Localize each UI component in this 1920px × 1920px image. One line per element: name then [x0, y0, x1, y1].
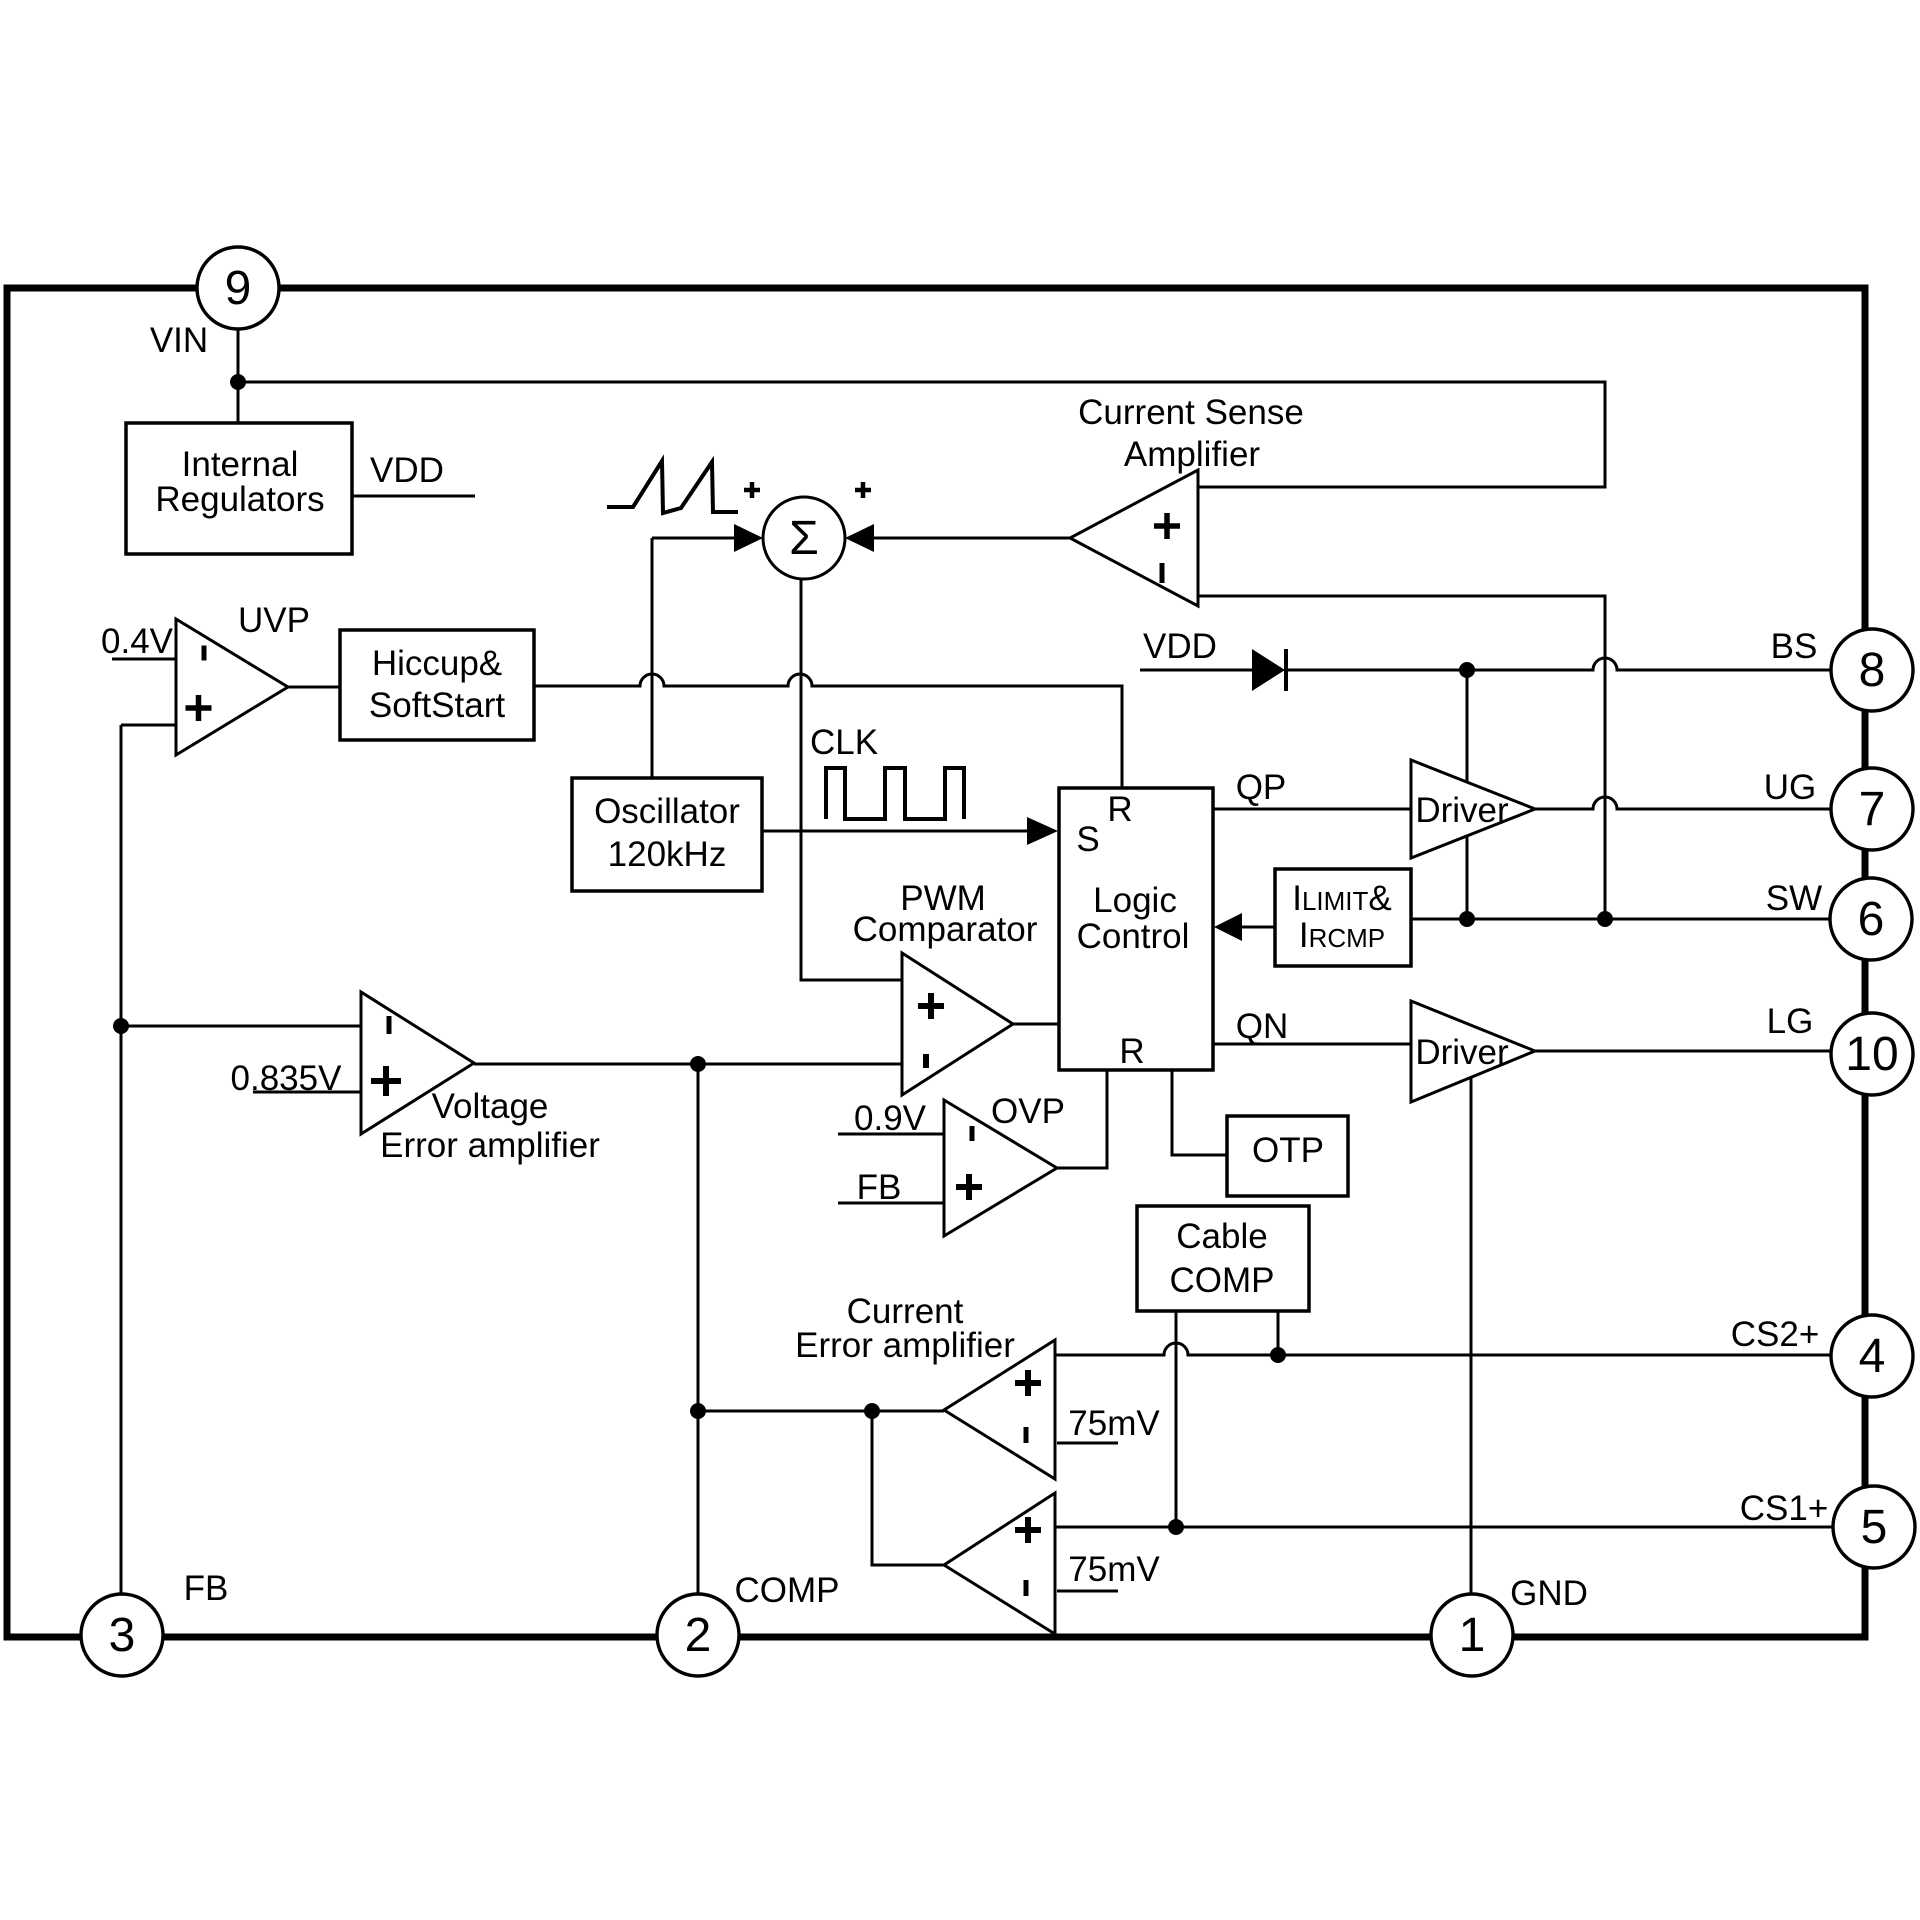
junction: split to lower amp — [864, 1403, 880, 1419]
svg-text:0.4V: 0.4V — [101, 622, 174, 661]
junction: SW / driver — [1459, 911, 1475, 927]
svg-text:UG: UG — [1764, 768, 1817, 807]
pin 7 (UG) — [1831, 768, 1913, 850]
junction: CS2+ / cable comp — [1270, 1347, 1286, 1363]
pin 10 (LG) — [1831, 1013, 1913, 1095]
amplifier: Current Error 2 (lower, points left) — [944, 1493, 1055, 1634]
svg-text:FB: FB — [184, 1569, 229, 1608]
svg-text:6: 6 — [1858, 893, 1885, 946]
block: Internal Regulators — [126, 423, 352, 554]
comparator: PWM — [902, 953, 1013, 1095]
wire: ILIMIT to logic control — [1242, 926, 1275, 929]
wire: OVP output up into logic control bottom — [1057, 1070, 1107, 1168]
net stub: 75mV (upper) — [1057, 1404, 1160, 1443]
svg-text:Amplifier: Amplifier — [1124, 435, 1260, 474]
wire: QN logic to lower driver — [1213, 1043, 1411, 1046]
svg-text:Comparator: Comparator — [853, 910, 1038, 949]
svg-text:Σ: Σ — [789, 512, 819, 565]
svg-text:8: 8 — [1859, 644, 1886, 697]
wire: FB vertical rail down to pin 3 — [120, 725, 123, 1596]
block: Oscillator 120kHz — [572, 778, 762, 891]
block: Hiccup & SoftStart — [340, 630, 534, 740]
svg-text:SW: SW — [1766, 879, 1822, 918]
wire: down and right to lower amp output — [872, 1411, 944, 1565]
block: OTP — [1227, 1116, 1348, 1196]
svg-text:R: R — [1107, 790, 1132, 829]
svg-text:10: 10 — [1845, 1028, 1898, 1081]
wire: VDD output stub of regulators — [352, 495, 475, 498]
block: Cable COMP — [1137, 1206, 1309, 1311]
summing node Σ — [763, 497, 845, 579]
driver: lower (LG) — [1411, 1001, 1535, 1102]
amplifier: Current Sense (points left) — [1070, 470, 1198, 606]
svg-text:QP: QP — [1236, 768, 1287, 807]
amplifier: Current Error 1 (upper, points left) — [944, 1340, 1055, 1479]
pin 2 (COMP) — [657, 1594, 739, 1676]
svg-text:UVP: UVP — [238, 601, 310, 640]
svg-text:VDD: VDD — [1143, 627, 1217, 666]
svg-text:SoftStart: SoftStart — [369, 686, 505, 725]
pin 8 (BS) — [1831, 629, 1913, 711]
net stub: 75mV (lower) — [1057, 1550, 1160, 1591]
wire: FB to voltage error amp - input — [121, 1025, 361, 1028]
wire: lower driver ground return to pin 1 — [1470, 1078, 1473, 1596]
svg-text:7: 7 — [1859, 783, 1886, 836]
wire: logic control bottom to OTP — [1172, 1070, 1227, 1155]
wire: CSA output to summing node — [874, 537, 1070, 540]
svg-text:Internal: Internal — [182, 445, 299, 484]
junction: SW / CSA feedback — [1597, 911, 1613, 927]
wire: VDD stub to diode — [1140, 669, 1252, 672]
svg-text:QN: QN — [1236, 1007, 1289, 1046]
wire: BS line to pin 8 (hops over CSA vertical) — [1286, 658, 1840, 670]
svg-text:CS1+: CS1+ — [1740, 1489, 1829, 1528]
wire: oscillator clock output to S input — [762, 830, 1028, 833]
wire: UVP output to Hiccup block — [288, 686, 340, 689]
arrow: S input of logic control — [1027, 817, 1058, 845]
wire: sawtooth feed corner down into oscillator top — [651, 538, 654, 778]
svg-text:75mV: 75mV — [1068, 1550, 1160, 1589]
svg-text:3: 3 — [109, 1609, 136, 1662]
amplifier: Voltage Error — [361, 992, 474, 1134]
arrow: into summing node from right — [845, 524, 874, 552]
pin 9 (VIN) — [197, 247, 279, 329]
svg-text:Logic: Logic — [1093, 881, 1177, 920]
wire: COMP vertical down to pin 2 — [697, 1064, 700, 1596]
svg-text:Control: Control — [1077, 917, 1190, 956]
wire: cable comp left leg down to CS1+ line — [1175, 1311, 1178, 1527]
label: + (current sense input) — [855, 482, 871, 498]
waveform: CLK square wave — [826, 768, 964, 819]
junction: FB / voltage error amp — [113, 1018, 129, 1034]
junction: COMP node — [690, 1056, 706, 1072]
svg-text:GND: GND — [1510, 1574, 1588, 1613]
wire: UVP + input from FB vertical — [121, 724, 176, 727]
svg-text:LG: LG — [1767, 1002, 1814, 1041]
svg-text:120kHz: 120kHz — [608, 835, 727, 874]
svg-text:R: R — [1119, 1032, 1144, 1071]
arrow: into logic control right side — [1214, 913, 1242, 941]
wire: QP logic to upper driver — [1213, 808, 1411, 811]
svg-text:S: S — [1076, 820, 1099, 859]
pin 4 (CS2+) — [1831, 1315, 1913, 1397]
wire: hiccup output to logic R input (hops over two verticals) — [534, 674, 1122, 788]
svg-text:1: 1 — [1459, 1609, 1486, 1662]
svg-text:VIN: VIN — [150, 321, 208, 360]
svg-text:COMP: COMP — [735, 1571, 840, 1610]
net stub: 0.835V into voltage error amp + input — [231, 1059, 361, 1098]
svg-text:2: 2 — [685, 1609, 712, 1662]
svg-text:Error amplifier: Error amplifier — [380, 1126, 600, 1165]
block: Logic Control — [1059, 788, 1213, 1071]
pin 5 (CS1+) — [1833, 1486, 1915, 1568]
comparator UVP — [176, 619, 288, 755]
pin 6 (SW) — [1830, 878, 1912, 960]
wire: SW line from ILIMIT box to pin 6 — [1411, 918, 1840, 921]
diode: bootstrap VDD to BS — [1252, 649, 1286, 691]
svg-text:COMP: COMP — [1170, 1261, 1275, 1300]
wire: voltage error amp output to PWM - input — [474, 1063, 902, 1066]
wire: sawtooth feed to summing node — [652, 537, 736, 540]
wire: summing node down and into PWM + input — [801, 579, 902, 980]
net stub: 0.9V into OVP - input — [838, 1099, 944, 1138]
svg-text:4: 4 — [1859, 1330, 1886, 1383]
svg-text:Regulators: Regulators — [155, 480, 324, 519]
wire: VIN rail across top, down at right, into CSA + input — [238, 382, 1605, 487]
junction: CS1+ / cable comp — [1168, 1519, 1184, 1535]
svg-text:OVP: OVP — [991, 1092, 1065, 1131]
svg-text:9: 9 — [225, 262, 252, 315]
svg-text:Oscillator: Oscillator — [594, 792, 740, 831]
svg-text:Driver: Driver — [1415, 1033, 1509, 1072]
net stub: 0.4V reference into UVP - input — [101, 622, 176, 661]
wire: cable comp right leg down to CS2+ line — [1277, 1311, 1280, 1355]
junction: COMP / current error amps — [690, 1403, 706, 1419]
svg-text:Error amplifier: Error amplifier — [795, 1326, 1015, 1365]
arrow: into summing node from left — [734, 524, 763, 552]
svg-text:Cable: Cable — [1176, 1217, 1267, 1256]
net stub: FB into OVP + input — [838, 1168, 944, 1207]
wire: LG line to pin 10 — [1535, 1050, 1840, 1053]
wire: UG line to pin 7 (hops over CSA vertical) — [1535, 797, 1840, 809]
svg-text:75mV: 75mV — [1068, 1404, 1160, 1443]
svg-text:BS: BS — [1771, 627, 1818, 666]
svg-text:Voltage: Voltage — [432, 1087, 549, 1126]
wire: COMP to current error amp outputs — [698, 1410, 944, 1413]
pin 1 (GND) — [1431, 1594, 1513, 1676]
wire: CS1+ line to pin 5 — [1055, 1526, 1840, 1529]
svg-text:Driver: Driver — [1415, 791, 1509, 830]
wire: CS2+ line to pin 4 (hops over cable comp leg) — [1055, 1343, 1840, 1355]
block: ILIMIT & IRCMP — [1275, 869, 1411, 966]
svg-text:Current Sense: Current Sense — [1078, 393, 1304, 432]
wire: BS junction down into upper driver — [1466, 670, 1469, 784]
driver: upper (UG) — [1411, 760, 1535, 858]
svg-text:5: 5 — [1861, 1501, 1888, 1554]
svg-text:OTP: OTP — [1252, 1131, 1324, 1170]
IC boundary box — [7, 288, 1865, 1637]
wire: PWM output to logic control — [1013, 1023, 1059, 1026]
wire: upper driver down to SW — [1466, 836, 1469, 919]
comparator: OVP — [944, 1100, 1057, 1236]
svg-text:VDD: VDD — [370, 451, 444, 490]
label: + (sawtooth input) — [744, 482, 760, 498]
svg-text:CLK: CLK — [810, 723, 878, 762]
svg-text:CS2+: CS2+ — [1731, 1315, 1820, 1354]
wire: pin9 VIN down to Internal Regulators — [237, 329, 240, 423]
pin 3 (FB) — [81, 1594, 163, 1676]
svg-text:0.9V: 0.9V — [854, 1099, 927, 1138]
waveform: sawtooth — [607, 461, 738, 513]
wire: CSA - input to SW rail (vertical on right) — [1198, 596, 1605, 919]
svg-text:Hiccup&: Hiccup& — [372, 644, 502, 683]
junction: VIN node — [230, 374, 246, 390]
junction: BS / driver supply — [1459, 662, 1475, 678]
svg-text:FB: FB — [857, 1168, 902, 1207]
